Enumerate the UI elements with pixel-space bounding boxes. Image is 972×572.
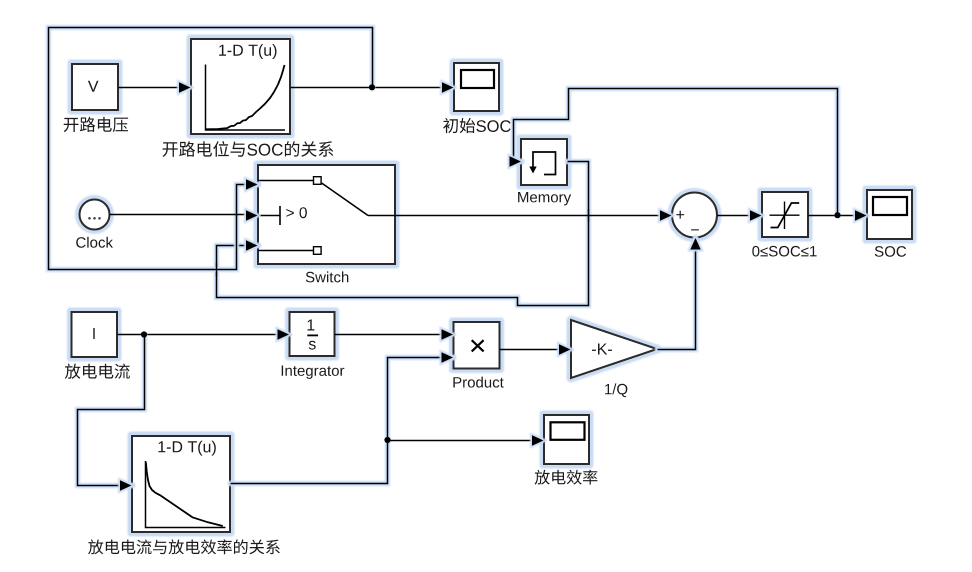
scope block 初始SOC	[450, 59, 504, 116]
label Integrator	[282, 366, 345, 379]
switch block (Switch)	[254, 161, 400, 269]
block I (discharge current constant)	[67, 308, 122, 362]
wire Integrator → Product input 1	[335, 329, 454, 339]
wire Product → Gain	[500, 344, 572, 354]
block V (open-circuit voltage constant)	[68, 60, 123, 115]
wire Gain → Sum bottom input	[658, 238, 701, 350]
wire lookup table 2 → Product input 2	[231, 352, 454, 483]
integrator block (1/s)	[285, 308, 339, 361]
scope block 放电效率	[540, 411, 594, 469]
product block (×)	[449, 318, 504, 374]
wire Clock → Switch control input	[110, 210, 259, 220]
label Memory	[518, 192, 571, 205]
junction node after I block	[141, 331, 147, 337]
label 1/Q	[605, 383, 627, 397]
wire initial-SOC feedback to Switch input 1	[49, 28, 373, 270]
wire branch → scope 放电效率	[388, 435, 545, 445]
wire Switch → Sum	[396, 210, 673, 220]
label Switch	[306, 271, 349, 282]
label Product	[453, 377, 503, 388]
lookup table block 放电电流与放电效率的关系 (1-D T(u))	[128, 432, 235, 537]
junction node on lookup output	[369, 84, 375, 90]
wire SOC feedback → Memory input	[510, 89, 838, 216]
label Clock	[76, 237, 113, 248]
junction node on efficiency wire	[384, 437, 390, 443]
wire lookup table → scope 初始SOC	[291, 82, 455, 92]
label 放电效率	[535, 470, 598, 485]
label SOC	[875, 246, 906, 257]
label 初始SOC	[443, 118, 511, 133]
label 放电电流与放电效率的关系	[88, 539, 280, 554]
wire crossing segment (Memory wire over Switch–Sum wire)	[217, 209, 589, 276]
scope block SOC	[863, 186, 917, 244]
saturation block 0≤SOC≤1	[758, 188, 813, 242]
lookup table block 开路电位与SOC的关系 (1-D T(u))	[187, 35, 295, 139]
label 放电电流	[65, 364, 130, 379]
junction node after Saturation	[834, 212, 840, 218]
wire Memory output → Switch input 3	[217, 162, 589, 306]
wire Sum → Saturation	[718, 210, 763, 220]
label 开路电位与SOC的关系	[163, 141, 334, 157]
label 0≤SOC≤1	[752, 246, 816, 257]
sum block (Add +/-)	[668, 188, 722, 242]
wire Saturation → scope SOC	[809, 210, 868, 220]
wire I → Integrator	[118, 329, 290, 339]
wire V → lookup table	[119, 82, 192, 92]
wire I feedback → lookup table 2	[78, 335, 145, 491]
memory block U (Memory)	[517, 135, 572, 190]
clock block (Clock)	[75, 195, 114, 234]
gain block -K- (1/Q)	[571, 320, 657, 378]
label 开路电压	[64, 117, 128, 132]
